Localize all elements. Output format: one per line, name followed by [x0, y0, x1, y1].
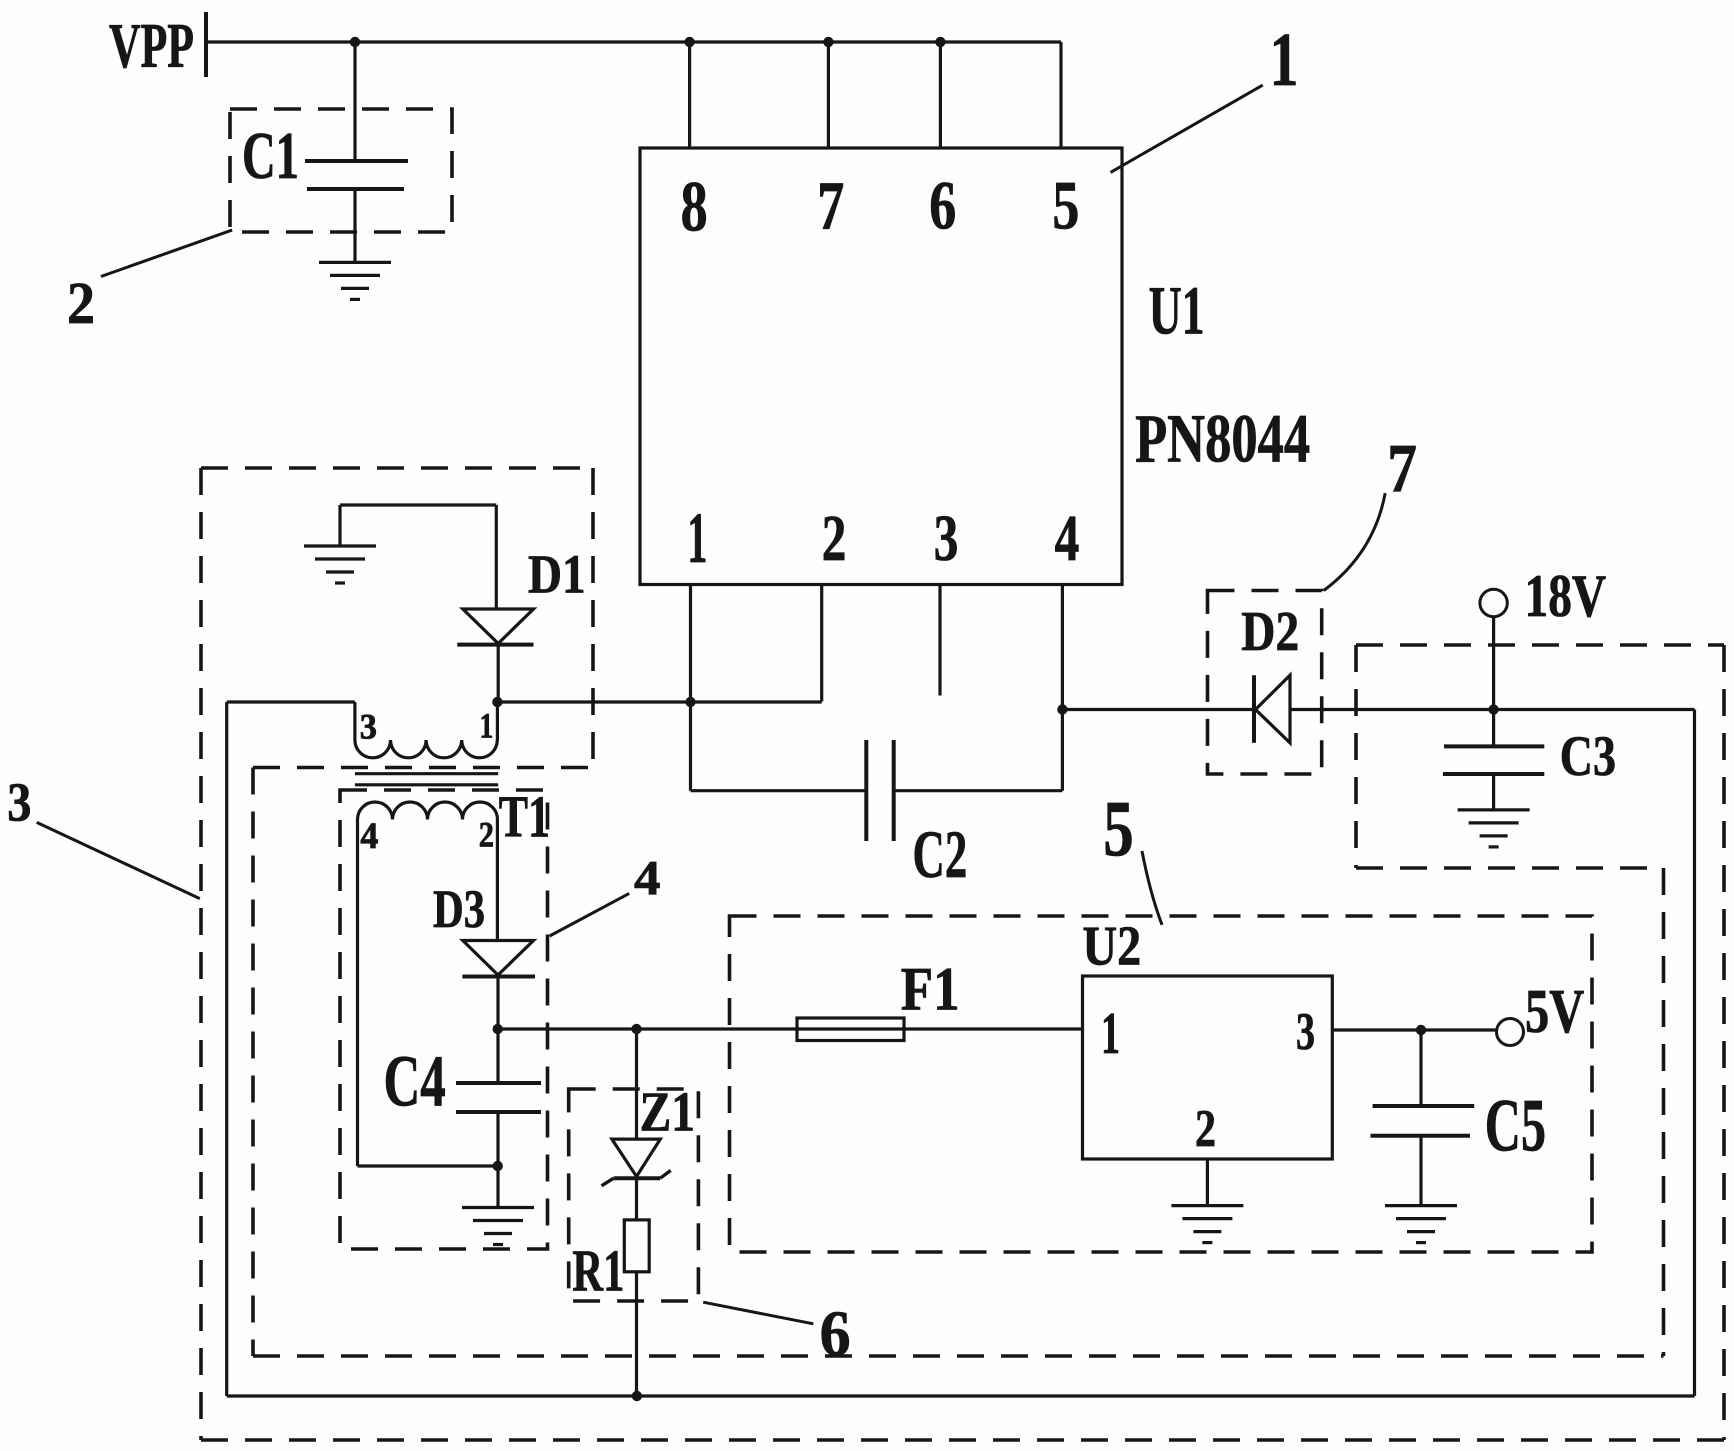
svg-text:U2: U2: [1082, 915, 1141, 977]
svg-text:3: 3: [934, 502, 959, 575]
svg-text:U1: U1: [1149, 272, 1205, 349]
svg-text:C3: C3: [1560, 725, 1616, 788]
svg-text:C1: C1: [242, 120, 299, 193]
svg-text:6: 6: [820, 1298, 851, 1369]
svg-text:1: 1: [687, 497, 707, 578]
svg-text:5: 5: [1103, 785, 1134, 873]
svg-text:8: 8: [681, 166, 708, 247]
svg-text:D2: D2: [1241, 601, 1299, 663]
svg-text:Z1: Z1: [640, 1081, 695, 1143]
svg-text:5: 5: [1052, 166, 1079, 243]
svg-text:3: 3: [360, 706, 377, 746]
svg-text:4: 4: [1055, 502, 1080, 575]
svg-text:PN8044: PN8044: [1135, 399, 1310, 476]
svg-text:2: 2: [67, 271, 95, 336]
svg-text:1: 1: [480, 706, 494, 746]
svg-text:2: 2: [822, 502, 847, 575]
svg-text:C5: C5: [1485, 1085, 1546, 1168]
svg-text:T1: T1: [499, 784, 550, 850]
svg-text:F1: F1: [901, 956, 960, 1023]
svg-text:4: 4: [360, 815, 378, 856]
svg-text:2: 2: [1195, 1100, 1216, 1158]
svg-text:VPP: VPP: [109, 11, 194, 81]
svg-text:3: 3: [7, 772, 31, 833]
svg-text:7: 7: [817, 166, 844, 243]
svg-text:3: 3: [1296, 1003, 1315, 1061]
svg-text:1: 1: [1101, 1001, 1120, 1066]
svg-text:18V: 18V: [1525, 563, 1607, 629]
svg-text:7: 7: [1387, 430, 1417, 506]
svg-text:2: 2: [479, 814, 494, 854]
svg-text:6: 6: [929, 166, 956, 243]
svg-text:4: 4: [634, 852, 661, 905]
svg-text:5V: 5V: [1525, 978, 1584, 1046]
svg-text:D1: D1: [528, 544, 586, 605]
svg-text:C2: C2: [913, 817, 968, 892]
svg-text:R1: R1: [572, 1239, 624, 1304]
svg-text:1: 1: [1270, 17, 1299, 102]
svg-text:D3: D3: [433, 879, 485, 939]
svg-text:C4: C4: [384, 1041, 446, 1122]
